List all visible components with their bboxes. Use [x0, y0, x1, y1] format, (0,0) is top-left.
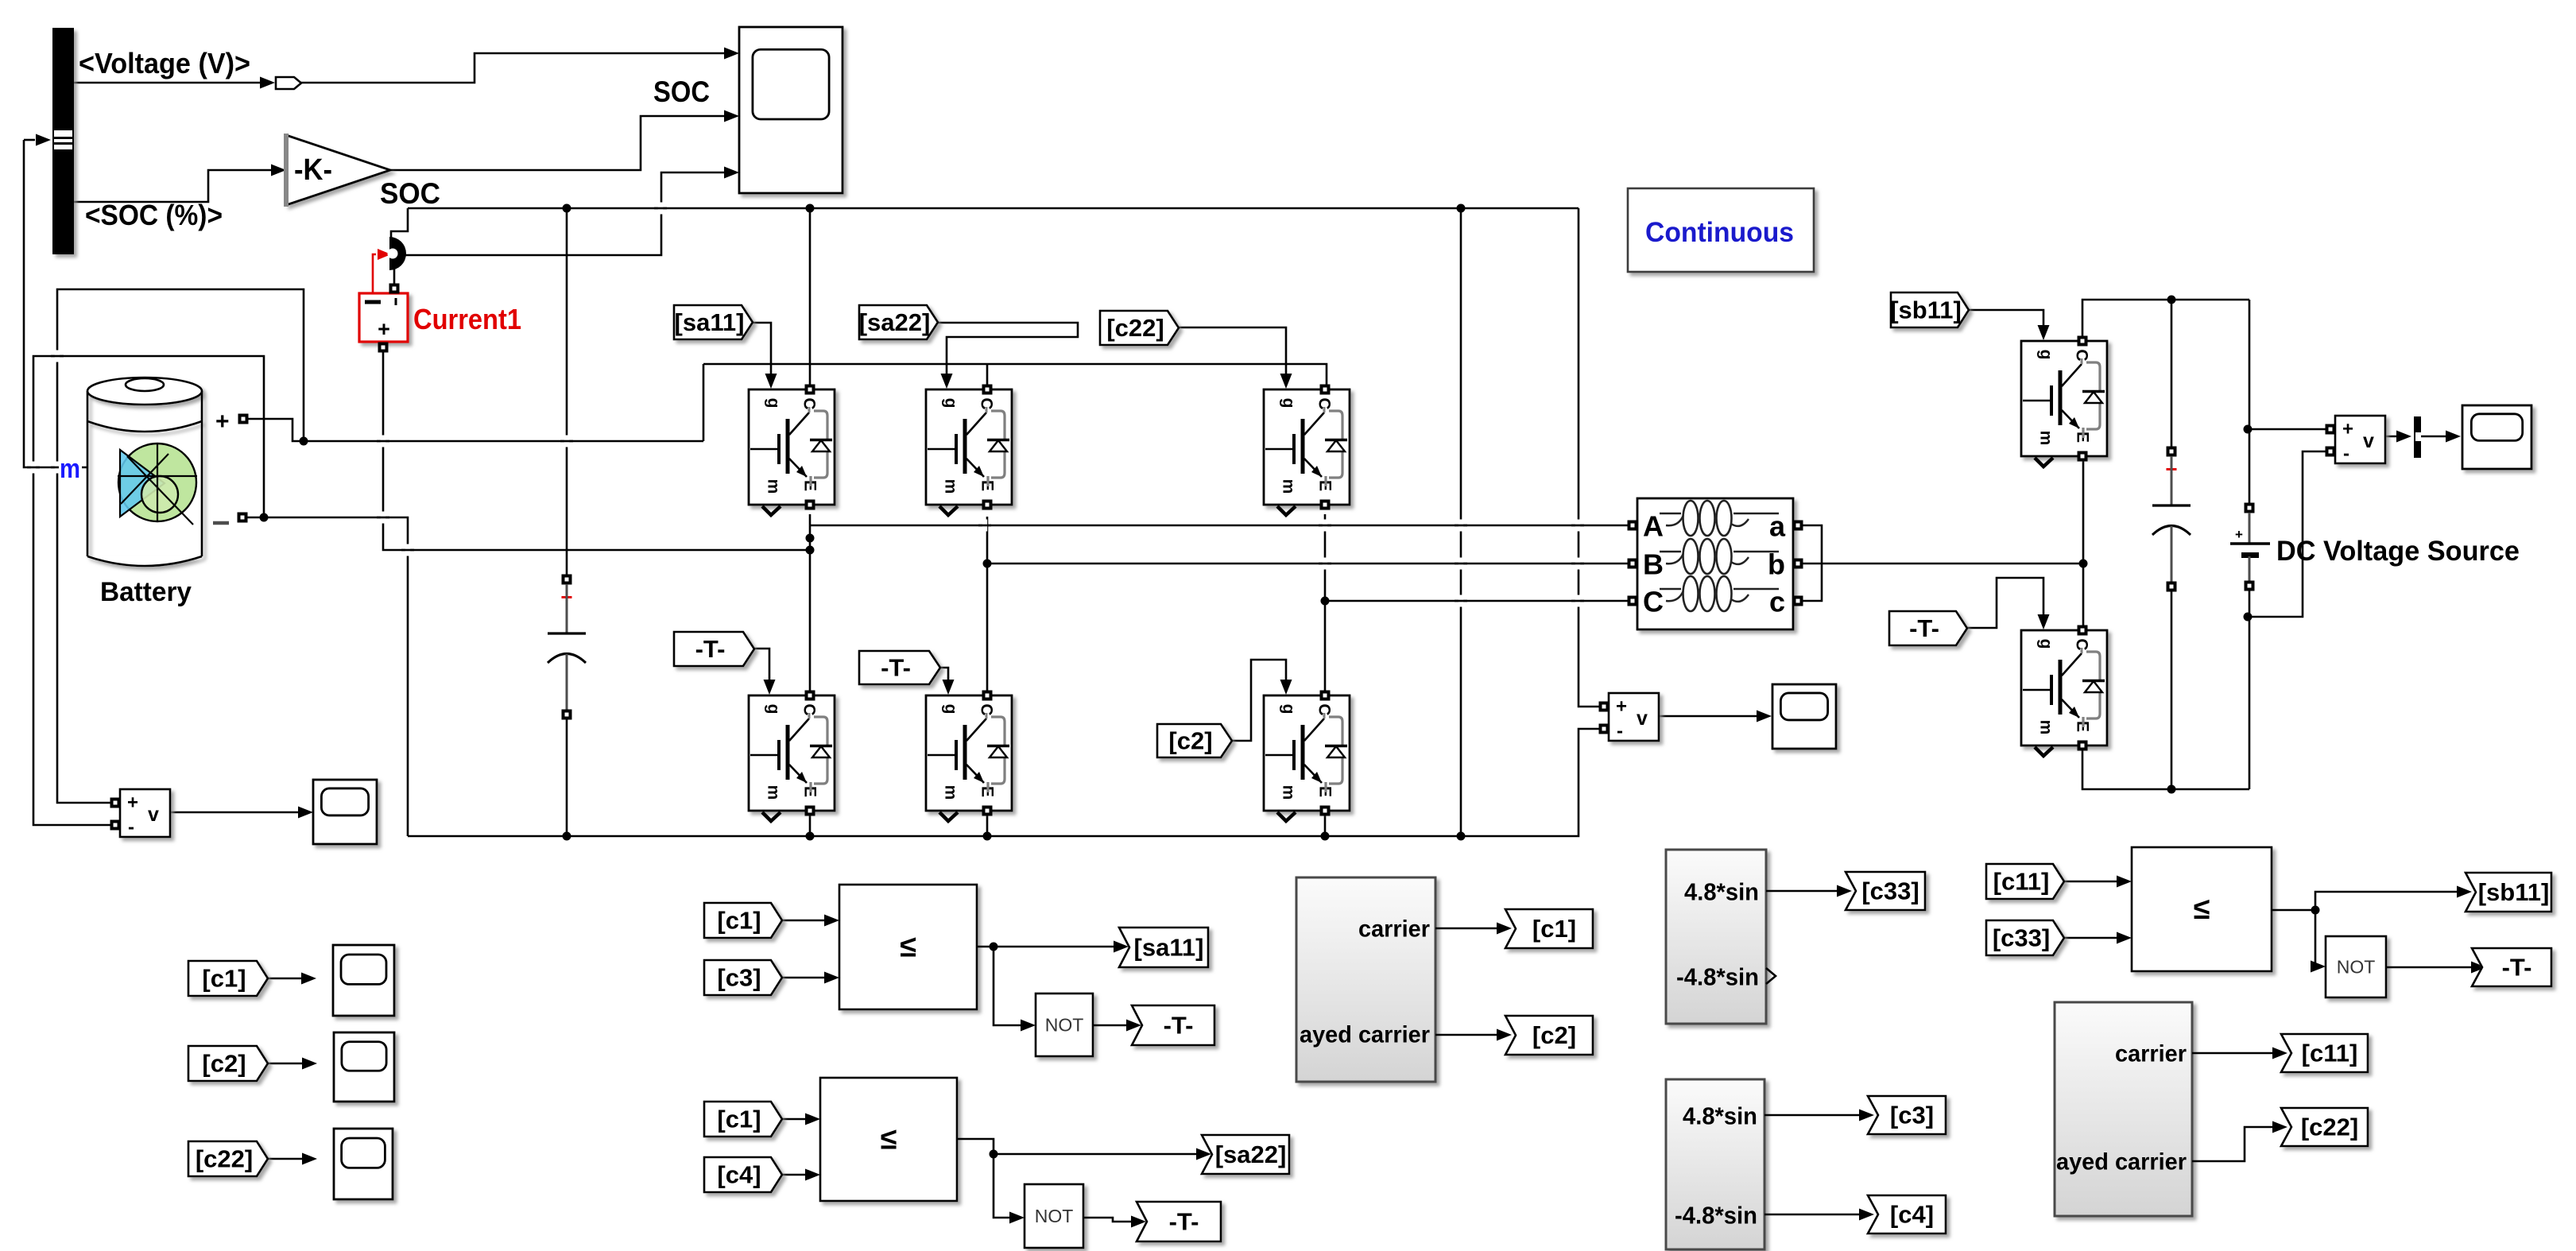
svg-text:ayed carrier: ayed carrier: [2056, 1149, 2187, 1175]
svg-text:[c22]: [c22]: [1106, 314, 1164, 342]
svg-text:≤: ≤: [900, 931, 916, 964]
svg-text:b: b: [1768, 548, 1785, 581]
svg-text:B: B: [1643, 548, 1664, 581]
svg-text:m: m: [60, 454, 80, 484]
svg-text:[c11]: [c11]: [2302, 1040, 2358, 1067]
svg-text:+: +: [215, 409, 230, 435]
svg-text:[c2]: [c2]: [1168, 727, 1212, 755]
svg-text:-: -: [1617, 721, 1623, 742]
svg-text:[sa11]: [sa11]: [1134, 934, 1204, 962]
svg-text:C: C: [1643, 586, 1664, 618]
svg-text:≤: ≤: [881, 1123, 897, 1156]
svg-text:[sa22]: [sa22]: [859, 308, 931, 336]
svg-text:-K-: -K-: [294, 153, 332, 187]
svg-text:-: -: [2343, 443, 2349, 465]
svg-text:[c3]: [c3]: [717, 964, 761, 992]
svg-text:c: c: [1769, 586, 1785, 618]
svg-text:[c2]: [c2]: [1532, 1021, 1576, 1049]
svg-text:SOC: SOC: [653, 76, 710, 108]
svg-text:v: v: [1637, 707, 1648, 730]
svg-text:[sb11]: [sb11]: [1890, 296, 1962, 324]
svg-text:[sa22]: [sa22]: [1215, 1141, 1287, 1168]
svg-text:v: v: [2363, 430, 2374, 452]
svg-text:+: +: [2342, 419, 2353, 440]
svg-text:[c1]: [c1]: [1532, 915, 1576, 943]
svg-text:4.8*sin: 4.8*sin: [1683, 1102, 1757, 1130]
svg-text:NOT: NOT: [1045, 1015, 1084, 1036]
svg-text:[c4]: [c4]: [717, 1161, 761, 1189]
svg-text:a: a: [1769, 510, 1786, 543]
svg-text:-T-: -T-: [1909, 614, 1939, 642]
svg-text:-4.8*sin: -4.8*sin: [1675, 1202, 1757, 1230]
svg-text:NOT: NOT: [2337, 957, 2376, 978]
svg-text:-T-: -T-: [881, 654, 911, 682]
svg-text:Current1: Current1: [413, 303, 521, 335]
svg-text:[c22]: [c22]: [2301, 1114, 2358, 1141]
svg-text:v: v: [148, 804, 159, 826]
svg-text:[c22]: [c22]: [196, 1145, 253, 1173]
svg-text:[c1]: [c1]: [717, 907, 761, 935]
svg-text:[c33]: [c33]: [1993, 924, 2050, 952]
svg-text:-: -: [128, 817, 134, 839]
svg-text:<SOC (%)>: <SOC (%)>: [85, 199, 223, 231]
svg-text:-T-: -T-: [1164, 1012, 1194, 1040]
svg-text:[c3]: [c3]: [1890, 1102, 1934, 1129]
svg-text:<Voltage (V)>: <Voltage (V)>: [79, 47, 250, 79]
svg-text:[c1]: [c1]: [202, 965, 246, 993]
svg-text:-4.8*sin: -4.8*sin: [1676, 963, 1759, 991]
svg-text:+: +: [127, 792, 138, 814]
svg-text:+: +: [2235, 527, 2243, 542]
svg-text:carrier: carrier: [2115, 1041, 2187, 1067]
svg-text:[c1]: [c1]: [717, 1106, 761, 1133]
svg-text:Continuous: Continuous: [1645, 217, 1794, 248]
svg-text:≤: ≤: [2194, 893, 2210, 926]
svg-text:carrier: carrier: [1358, 916, 1430, 943]
svg-text:A: A: [1643, 510, 1664, 543]
svg-text:-T-: -T-: [1169, 1208, 1199, 1236]
svg-text:[c4]: [c4]: [1890, 1201, 1934, 1229]
svg-text:4.8*sin: 4.8*sin: [1684, 878, 1759, 906]
svg-text:+: +: [378, 317, 390, 341]
svg-text:[c2]: [c2]: [202, 1050, 246, 1078]
svg-text:[sb11]: [sb11]: [2478, 878, 2550, 906]
svg-text:NOT: NOT: [1035, 1206, 1074, 1226]
svg-text:-T-: -T-: [2502, 954, 2532, 982]
svg-text:DC Voltage Source: DC Voltage Source: [2276, 536, 2520, 567]
svg-text:Battery: Battery: [100, 577, 192, 607]
svg-text:[c33]: [c33]: [1861, 877, 1919, 905]
svg-text:-T-: -T-: [695, 635, 726, 663]
svg-text:SOC: SOC: [380, 177, 440, 210]
svg-text:ayed carrier: ayed carrier: [1300, 1022, 1430, 1048]
svg-text:[c11]: [c11]: [1993, 868, 2050, 896]
svg-text:+: +: [1616, 696, 1627, 718]
svg-text:[sa11]: [sa11]: [675, 308, 745, 336]
